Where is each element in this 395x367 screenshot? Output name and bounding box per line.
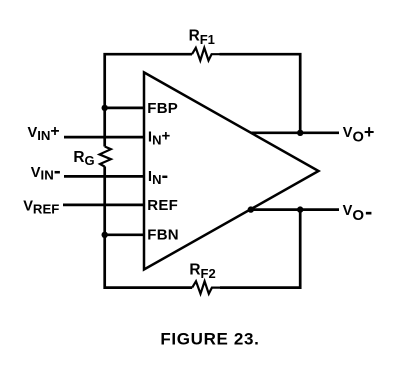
svg-text:VIN+: VIN+ (28, 123, 60, 143)
wire: VO+ output line (251, 131, 339, 134)
svg-text:VREF: VREF (23, 199, 59, 217)
resistor RG (100, 147, 111, 167)
wire: VIN+ input line to IN+ pin (64, 136, 146, 139)
wire: VIN- input line to IN- pin (64, 175, 146, 178)
resistor RF1 (192, 48, 220, 61)
svg-text:FIGURE 23.: FIGURE 23. (160, 329, 259, 348)
svg-text:RF2: RF2 (189, 261, 215, 281)
svg-text:RG: RG (73, 149, 94, 168)
label VIN- (31, 160, 61, 183)
svg-text:RF1: RF1 (189, 27, 215, 47)
junction dot at FBN node (102, 232, 108, 238)
pin label IN- (148, 165, 168, 187)
label VO+ (343, 122, 375, 146)
svg-text:REF: REF (147, 197, 178, 214)
wire: FBN stub (105, 233, 146, 236)
wire: bottom feedback wire right segment and right vertical rise to VO- (220, 210, 300, 288)
wire: VREF input line to REF pin (63, 204, 146, 207)
svg-text:FBN: FBN (147, 227, 179, 244)
label RF2 (189, 261, 215, 281)
label VO- (343, 199, 373, 224)
resistor RF2 (192, 281, 221, 294)
wire: FBP stub (105, 107, 146, 110)
label VREF (23, 199, 59, 217)
wire: left vertical rail lower part and bottom feedback wire left segment (105, 166, 193, 287)
wire: top feedback wire left segment and left vertical rail upper part (105, 54, 192, 146)
junction dot at VO+ node (297, 130, 303, 136)
svg-text:VO-: VO- (343, 199, 373, 224)
wire: top feedback wire right segment and right vertical drop to VO+ (220, 54, 301, 133)
pin label REF (147, 197, 178, 214)
pin label FBN (147, 227, 179, 244)
label RF1 (189, 27, 215, 47)
junction dot at VO- node (297, 206, 303, 212)
svg-text:VO+: VO+ (343, 122, 375, 146)
caption FIGURE 23. (160, 329, 259, 348)
svg-text:FBP: FBP (147, 100, 178, 117)
svg-text:VIN-: VIN- (31, 160, 61, 183)
pin label FBP (147, 100, 178, 117)
pin label IN+ (148, 127, 171, 147)
junction dot on lower triangle edge at VO- tap (248, 206, 254, 212)
label RG (73, 149, 94, 168)
junction dot at FBP node (102, 105, 108, 111)
op-amp U1 triangle (144, 72, 319, 269)
label VIN+ (28, 123, 60, 143)
wire: VO- output line (251, 208, 339, 211)
